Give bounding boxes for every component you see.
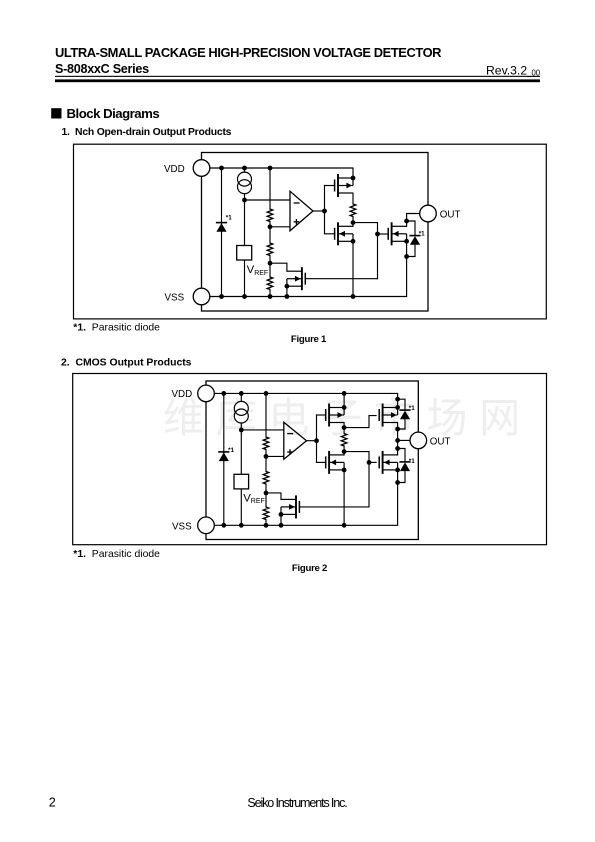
- node NMOS2 gate: [375, 232, 380, 237]
- node op-amp out: [322, 209, 327, 214]
- wire hysteresis source to rail: [286, 286, 288, 296]
- wire node to NMOS2/NMOS3 gates: [353, 223, 378, 279]
- node NMOS1 source: [351, 239, 356, 244]
- wire hysteresis gate: [305, 278, 377, 280]
- resistor R1: [267, 209, 273, 222]
- node diode D4 top: [395, 397, 400, 402]
- transistor Q9 NMOS output: [379, 451, 397, 474]
- resistor R4: [350, 204, 356, 217]
- svg-text:*1: *1: [228, 447, 234, 454]
- node tap2: [264, 491, 269, 496]
- svg-text:*1: *1: [419, 230, 425, 237]
- wire resistor ladder: [265, 393, 267, 525]
- svg-text:Seiko Instruments Inc.: Seiko Instruments Inc.: [247, 796, 347, 810]
- svg-text:*1. Parasitic diode: *1. Parasitic diode: [73, 549, 160, 560]
- current source I1: [238, 172, 252, 194]
- node NMOS5 source: [395, 468, 400, 473]
- node diode anode: [404, 254, 409, 259]
- svg-text:S-808xxC Series: S-808xxC Series: [55, 62, 149, 76]
- resistor R2: [267, 243, 273, 256]
- header thick rule: [55, 79, 540, 82]
- svg-text:2. CMOS Output Products: 2. CMOS Output Products: [61, 357, 192, 368]
- wire VSS rail: [210, 257, 407, 297]
- svg-text:ULTRA-SMALL PACKAGE HIGH-PRECI: ULTRA-SMALL PACKAGE HIGH-PRECISION VOLTA…: [55, 45, 442, 60]
- wire NMOS5 gate stub: [369, 461, 376, 463]
- svg-text:1. Nch Open-drain Output Prod: 1. Nch Open-drain Output Products: [62, 127, 232, 138]
- svg-text:*1: *1: [409, 458, 415, 465]
- transistor Q3 NMOS hysteresis (mirrored): [287, 267, 305, 290]
- node OUT: [395, 438, 400, 443]
- wire diode branch: [221, 168, 223, 297]
- wire output diode bottom: [407, 245, 415, 257]
- parasitic diode D5: [399, 462, 410, 471]
- parasitic diode D3: [218, 452, 229, 461]
- node VSS rail dots: [221, 523, 226, 528]
- svg-text:Figure 2: Figure 2: [292, 563, 327, 574]
- wire to inverting input: [241, 429, 283, 431]
- fig2 IC inner box: [206, 381, 418, 540]
- wire tap1 to plus input: [270, 226, 290, 228]
- node NMOS4 source: [342, 468, 347, 473]
- fig2 outer frame: [73, 374, 547, 545]
- terminal VSS fig1: [193, 288, 210, 305]
- wire inverter gate line: [324, 186, 326, 234]
- node PMOS3 source: [395, 405, 400, 410]
- wire op-amp output: [307, 440, 317, 442]
- svg-text:Figure 1: Figure 1: [291, 334, 327, 345]
- wire bottom diode D5: [398, 449, 405, 483]
- svg-text:VSS: VSS: [165, 293, 185, 304]
- wire PMOS1 gate stub: [325, 185, 335, 187]
- node inverter out: [351, 220, 356, 225]
- node NMOS5 drain: [395, 446, 400, 451]
- wire PMOS1 drain to R4: [352, 193, 354, 204]
- resistor R3: [267, 277, 273, 290]
- wire op-amp output: [313, 210, 325, 212]
- wire inverter top node to PMOS3 gate: [344, 416, 376, 428]
- svg-text:VREF: VREF: [247, 264, 269, 277]
- wire tap2 to hysteresis drain: [270, 263, 287, 271]
- resistor R7: [263, 507, 269, 520]
- section heading bullet: [51, 108, 61, 118]
- svg-text:OUT: OUT: [430, 436, 451, 447]
- svg-text:*1. Parasitic diode: *1. Parasitic diode: [73, 322, 160, 333]
- svg-text:VDD: VDD: [172, 389, 193, 400]
- wire diode branch: [223, 393, 225, 525]
- wire resistor ladder: [269, 168, 271, 297]
- Vref box: [237, 246, 252, 261]
- wire R4 bottom to node: [352, 217, 354, 227]
- wire inverter bottom node to gates: [344, 452, 369, 507]
- wire VDD rail: [210, 168, 353, 178]
- svg-text:VSS: VSS: [172, 521, 192, 532]
- node op-amp out: [314, 438, 319, 443]
- wire NMOS1 source to rail: [352, 241, 354, 296]
- op-amp U2: [284, 422, 307, 459]
- Vref box: [234, 474, 249, 489]
- terminal VDD fig1: [193, 160, 210, 177]
- node PMOS1 source: [351, 176, 356, 181]
- wire OUT stub: [398, 439, 411, 441]
- wire VSS rail: [215, 483, 398, 526]
- wire OUT to drain node: [407, 214, 420, 227]
- wire R5 bottom: [343, 446, 345, 455]
- wire NMOS2 gate stub: [378, 233, 389, 235]
- node NMOS2 drain: [404, 219, 409, 224]
- node inverter bottom: [342, 449, 347, 454]
- wire VDD rail: [215, 393, 398, 399]
- wire Vref top: [244, 200, 246, 246]
- parasitic diode D1: [216, 223, 227, 232]
- wire PMOS2 drain to R5: [343, 423, 345, 434]
- node comparator ref: [242, 198, 247, 203]
- wire tap2 to hysteresis drain: [266, 493, 281, 500]
- svg-text:Block Diagrams: Block Diagrams: [67, 106, 160, 121]
- wire NMOS1 gate stub: [325, 233, 335, 235]
- transistor Q8 PMOS output: [379, 404, 397, 427]
- wire PMOS3 drain to OUT node: [397, 423, 399, 455]
- node tap1: [268, 224, 273, 229]
- wire PMOS2 gate stub: [317, 414, 326, 416]
- resistor R6: [263, 472, 269, 485]
- node PMOS2 source: [342, 405, 347, 410]
- terminal OUT fig2: [410, 432, 427, 449]
- node PMOS3 drain: [395, 427, 400, 432]
- wire Vref top: [240, 430, 242, 474]
- op-amp U1: [290, 191, 313, 231]
- transistor Q7 NMOS hysteresis (mirrored): [281, 495, 299, 518]
- resistor R8 inverter: [341, 434, 347, 447]
- terminal VDD fig2: [198, 385, 215, 402]
- terminal OUT fig1: [420, 205, 437, 222]
- node tap2: [268, 261, 273, 266]
- wire Vref bottom: [244, 260, 246, 297]
- resistor R5 ladder: [263, 437, 269, 450]
- wire PMOS3 source column: [397, 399, 399, 407]
- wire NMOS2 source down: [406, 241, 408, 256]
- wire hysteresis gate: [299, 506, 369, 508]
- wire hysteresis source to rail: [280, 514, 282, 525]
- wire top diode D4: [398, 399, 405, 429]
- svg-text:*1: *1: [226, 215, 232, 222]
- node comparator ref: [239, 428, 244, 433]
- node hysteresis source: [279, 512, 284, 517]
- transistor Q4 NMOS output: [388, 222, 406, 245]
- node diode D5 bottom: [395, 480, 400, 485]
- wire rail to PMOS2 source: [343, 393, 345, 407]
- svg-text:OUT: OUT: [440, 210, 461, 221]
- node VSS rail dots: [219, 294, 224, 299]
- wire output diode top: [407, 221, 415, 236]
- wire NMOS4 source to rail: [343, 470, 345, 525]
- node VDD rail dots: [219, 166, 224, 171]
- svg-text:2: 2: [49, 795, 56, 809]
- node tap1: [264, 454, 269, 459]
- current source I2: [234, 401, 248, 423]
- wire NMOS5 source down: [397, 470, 399, 483]
- svg-text:VREF: VREF: [243, 492, 265, 505]
- wire to inverting input: [245, 199, 291, 201]
- node VDD rail dots: [221, 391, 226, 396]
- header thin rule: [55, 76, 540, 77]
- svg-text:Rev.3.2_00: Rev.3.2_00: [486, 63, 541, 77]
- node NMOS2 source: [404, 239, 409, 244]
- node hysteresis source: [285, 284, 290, 289]
- wire Vref bottom: [240, 489, 242, 525]
- parasitic diode D2: [409, 236, 420, 245]
- svg-text:VDD: VDD: [164, 164, 185, 175]
- transistor Q1 PMOS inverter top: [335, 174, 353, 197]
- terminal VSS fig2: [198, 517, 215, 534]
- fig1 outer frame: [74, 144, 547, 319]
- node NMOS5 gate: [367, 460, 372, 465]
- transistor Q5 PMOS inverter: [326, 404, 344, 427]
- node inverter top: [342, 425, 347, 430]
- parasitic diode D4: [399, 410, 410, 419]
- svg-text:*1: *1: [409, 405, 415, 412]
- wire inverter gate line: [316, 415, 318, 462]
- wire current source branch: [240, 393, 242, 430]
- transistor Q6 NMOS inverter: [326, 451, 344, 474]
- transistor Q2 NMOS inverter bottom: [335, 222, 353, 245]
- fig1 IC inner box: [202, 153, 429, 312]
- wire NMOS4 gate stub: [317, 461, 326, 463]
- wire current source branch: [244, 168, 246, 200]
- wire tap1 to plus input: [266, 455, 284, 457]
